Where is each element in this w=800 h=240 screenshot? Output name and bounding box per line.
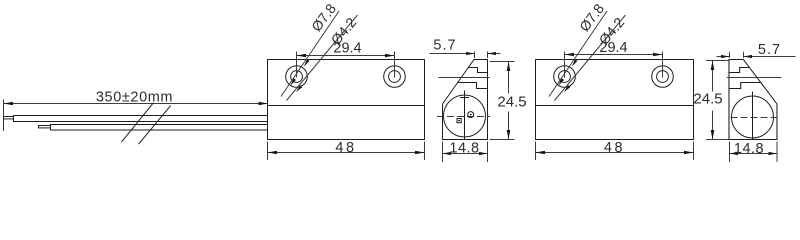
svg-text:24.5: 24.5	[497, 94, 526, 111]
svg-text:48: 48	[604, 140, 625, 156]
svg-text:5.7: 5.7	[433, 38, 456, 54]
svg-text:350±20mm: 350±20mm	[96, 90, 173, 106]
svg-text:14.8: 14.8	[449, 140, 479, 156]
svg-text:24.5: 24.5	[693, 91, 722, 108]
svg-text:14.8: 14.8	[734, 141, 764, 157]
svg-text:5.7: 5.7	[758, 42, 781, 58]
svg-text:48: 48	[335, 140, 356, 156]
